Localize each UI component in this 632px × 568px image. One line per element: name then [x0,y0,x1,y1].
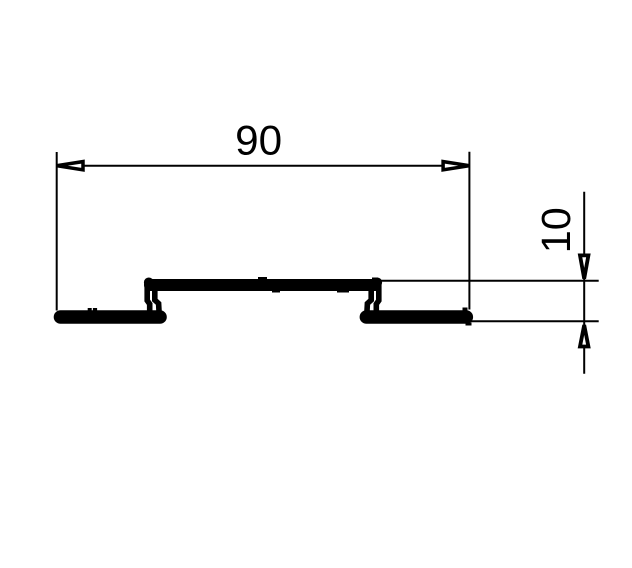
profile right flange [366,310,466,324]
svg-text:90: 90 [235,117,282,164]
tick mark center web bottom [272,291,280,293]
extension line right (90 dim) [468,152,470,310]
arrowhead upper (10 dim, pointing down) [580,255,588,278]
joint blob left riser top [144,278,154,288]
tick mark left flange top a [88,308,92,311]
profile center web (raised) [150,279,375,291]
tick mark right flange top end [463,308,468,311]
dimension line 90 [57,165,470,167]
tick mark center web top middle [258,277,267,280]
profile right riser outer line [376,284,379,311]
arrowhead right (90 dim) [443,162,470,170]
profile right riser inner line [367,291,372,317]
tick mark center web bottom right [337,291,349,293]
extension line lower (10 dim) [468,320,599,322]
profile left flange [61,310,161,324]
tick mark right flange bottom end [466,323,472,326]
profile left riser outer line [147,284,150,311]
arrowhead lower (10 dim, pointing up) [580,325,588,347]
profile left riser inner line [155,291,160,317]
tick mark center web top right [372,278,378,280]
extension line left (90 dim) [56,152,58,311]
tick mark left flange top b [93,308,97,311]
joint blob right riser top [372,278,382,288]
svg-text:10: 10 [533,207,579,253]
dimension line 10 [583,192,585,374]
arrowhead left (90 dim) [57,162,84,170]
extension line upper (10 dim) [376,280,599,282]
